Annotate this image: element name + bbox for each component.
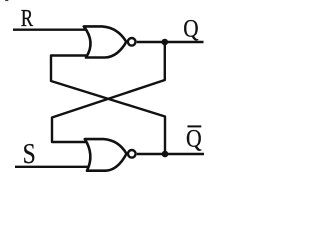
wire feedback into bottom gate (from Q) [52,42,165,142]
label Qbar [186,125,202,153]
artifact top-left [5,0,8,1]
NOR gate U1 (top) body [84,26,127,57]
label Q [183,15,199,43]
wire feedback into top gate (from Qbar) [51,56,165,155]
label S [23,138,36,169]
wire Qbar output [137,153,204,155]
junction dot at Qbar [162,151,169,158]
NOR gate U2 output bubble [128,150,136,158]
svg-text:Q: Q [183,15,199,43]
wire Q output [137,41,204,43]
svg-text:R: R [21,5,34,32]
svg-text:S: S [23,138,36,169]
overbar of Qbar [187,125,201,127]
junction dot at Q [162,39,169,46]
wire S input [15,166,89,168]
wire R input [13,29,87,31]
NOR gate U2 (bottom) body [85,139,127,171]
label R [21,5,34,32]
svg-text:Q: Q [186,125,202,153]
NOR gate U1 output bubble [128,38,136,46]
